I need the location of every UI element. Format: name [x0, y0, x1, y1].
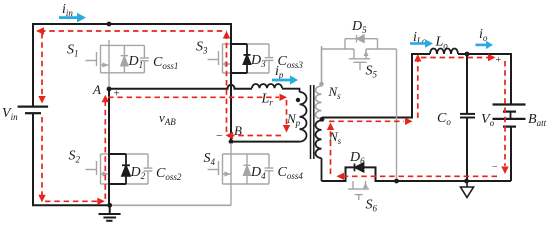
- capacitor C_oss3 (gray): [265, 44, 274, 73]
- inductor L_r: [252, 84, 300, 92]
- battery V_in: [18, 107, 48, 114]
- diode D6 (black): [355, 163, 364, 171]
- wire S2 branch (black, A to ground): [109, 88, 126, 205]
- diode D3 (black, conducting): [244, 44, 251, 73]
- svg-text:+: +: [496, 55, 502, 66]
- transformer primary N_p: [300, 92, 307, 142]
- arrow i_p (cyan): [272, 75, 298, 84]
- diode D2 (black, conducting): [122, 154, 130, 184]
- winding N_s top (gray): [316, 46, 322, 119]
- svg-text:−: −: [492, 162, 498, 173]
- arrowheads red primary: [36, 27, 290, 205]
- node gray dot N_s top: [319, 82, 324, 87]
- winding N_s bottom (black): [316, 120, 322, 181]
- capacitor C_oss1 (gray): [140, 45, 149, 72]
- svg-text:A: A: [92, 82, 101, 97]
- transistor S1 (gray cell): [86, 40, 145, 87]
- wire V_in bottom lead and bottom rail (black): [33, 114, 109, 206]
- arrowheads red secondary: [327, 54, 509, 180]
- wire red dashed secondary loop: [329, 58, 505, 177]
- capacitor C_oss2 (gray): [144, 154, 153, 184]
- node dot S5 drain to rail: [394, 179, 399, 184]
- transistor S5 (gray cell with D5): [322, 39, 397, 181]
- capacitor C_o: [460, 54, 475, 181]
- capacitor C_oss4 (gray): [265, 154, 274, 184]
- diode D5 (gray): [357, 35, 365, 42]
- node dot C_o bottom: [464, 179, 469, 184]
- ground (secondary, open triangle): [461, 181, 474, 198]
- node A: [107, 87, 112, 92]
- node dot top rail S1: [107, 22, 112, 27]
- diode D1 (gray body diode): [121, 45, 129, 72]
- wire secondary bottom rail to D6: [322, 167, 512, 181]
- diode D4 (gray): [244, 154, 251, 184]
- arrow i_in (cyan): [59, 13, 86, 23]
- wire top rail: [33, 24, 231, 107]
- battery B_att: [493, 105, 526, 182]
- wire bottom rail gray (to S4 source): [110, 204, 231, 206]
- arrow i_Lo (cyan): [410, 39, 433, 48]
- node primary dot: [296, 98, 300, 102]
- svg-text:−: −: [216, 129, 223, 143]
- inductor L_o: [430, 49, 458, 55]
- node junction dot bottom: [107, 203, 112, 208]
- node B: [229, 139, 234, 144]
- wire N_p bottom to B: [231, 141, 300, 143]
- wire A to L_r with hop over S3 vertical: [109, 85, 252, 89]
- wire L_o to battery top: [458, 54, 511, 105]
- arrow i_o (cyan): [476, 41, 494, 49]
- transistor S4 (all gray cell): [208, 143, 270, 205]
- transistor S3 (gray mosfet, black branch): [208, 44, 270, 73]
- node dot L_o out: [465, 52, 470, 57]
- transistor S6 (gray): [348, 181, 369, 200]
- wire center tap to L_o corner: [322, 54, 430, 118]
- node center tap dot: [320, 117, 325, 122]
- wire red dashed primary loop: [40, 31, 287, 201]
- transistor S2 (gray mosfet, black branch): [86, 154, 149, 184]
- wire S3 branch (black, rail to B): [231, 23, 247, 142]
- node ground (primary): [99, 205, 121, 221]
- transformer core: [311, 85, 314, 159]
